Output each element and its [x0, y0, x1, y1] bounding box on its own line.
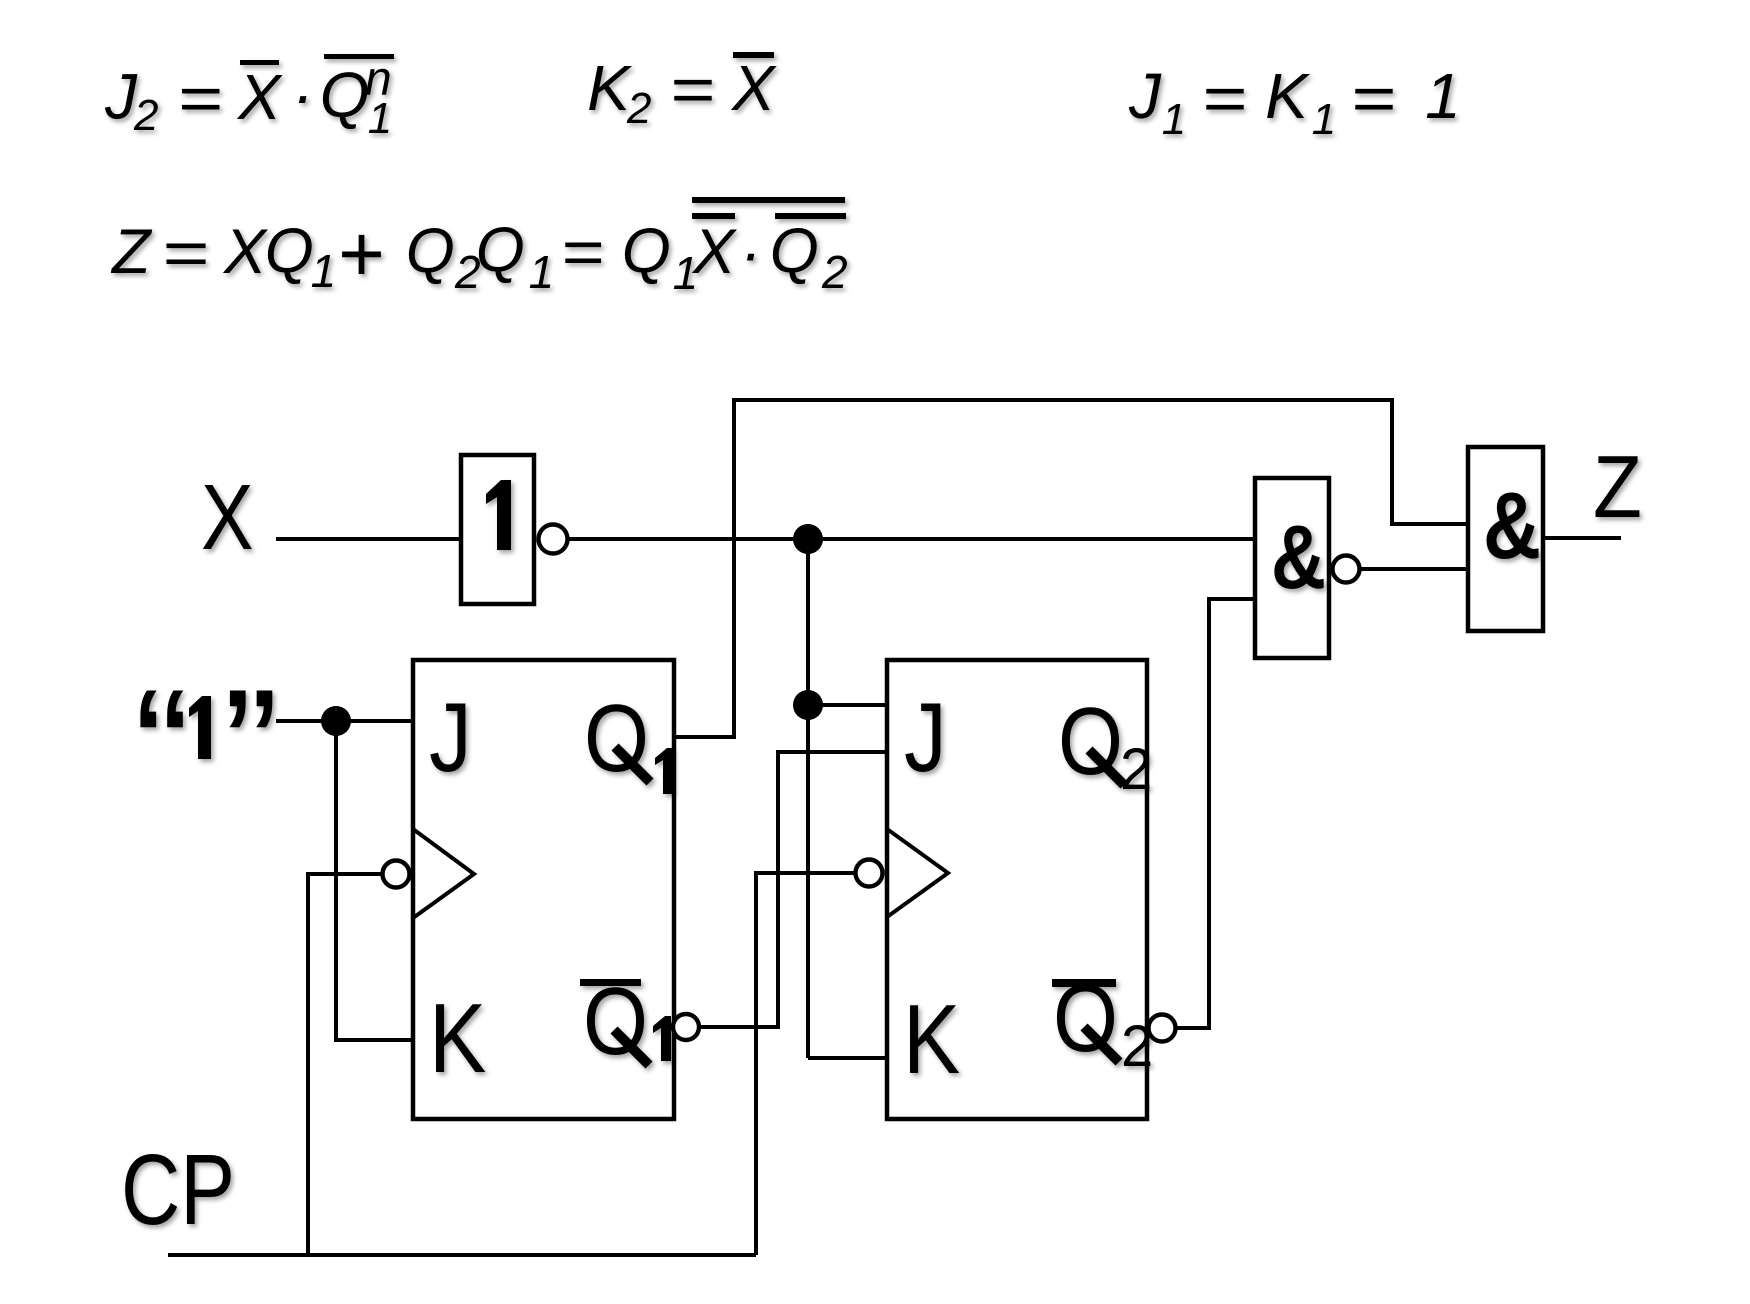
svg-text:=: = [177, 63, 222, 135]
svg-text:·: · [740, 219, 761, 289]
wire "1" to FF1 J [276, 719, 413, 723]
junction dot on "1" line [321, 706, 351, 736]
svg-text:K: K [1265, 60, 1311, 132]
wire Q1 feedback up and across to AND G3 [674, 400, 1468, 737]
FF1 pin Q1 label [584, 685, 673, 794]
junction dot on X-bar line [793, 524, 823, 554]
svg-text:J: J [429, 682, 472, 792]
svg-text:&: & [1271, 508, 1326, 608]
svg-text:Z: Z [1593, 437, 1642, 536]
svg-text:+: + [337, 209, 384, 298]
flip-flop FF2 box [887, 660, 1147, 1119]
svg-text:1: 1 [368, 94, 392, 143]
inverter G1 box [461, 455, 534, 604]
svg-text:Q: Q [265, 216, 314, 286]
flip-flop FF1 box [413, 660, 674, 1119]
svg-text:X: X [222, 217, 268, 287]
svg-text:=: = [669, 54, 714, 126]
svg-text:1: 1 [1425, 60, 1461, 132]
svg-text:K: K [903, 984, 960, 1094]
svg-text:J: J [104, 61, 138, 133]
svg-text:·: · [292, 59, 313, 131]
svg-text:CP: CP [121, 1134, 235, 1246]
svg-text:Q: Q [406, 216, 455, 286]
svg-text:=: = [561, 217, 604, 287]
FF2 clock bubble [856, 860, 883, 887]
NAND G2 output bubble [1333, 556, 1360, 583]
svg-text:2: 2 [626, 84, 651, 133]
inverter G1 output bubble [539, 525, 568, 554]
svg-text:X: X [201, 465, 254, 569]
svg-text:J: J [904, 682, 947, 792]
svg-text:2: 2 [821, 246, 848, 298]
wire to FF2 J [808, 703, 887, 707]
wire branch to FF1 K [336, 721, 413, 1040]
svg-text:“: “ [134, 655, 189, 839]
FF2 Q2-bar output bubble [1149, 1015, 1176, 1042]
node "1" constant label [134, 655, 278, 839]
svg-text:X: X [730, 52, 777, 124]
svg-text:=: = [1201, 63, 1246, 135]
junction dot at FF2 J branch [793, 690, 823, 720]
wire Q2-bar to NAND G2 lower input [1176, 599, 1255, 1028]
FF1 pin Q1-bar label [580, 968, 671, 1075]
svg-text:Q: Q [320, 59, 370, 131]
FF1 clock bubble [383, 861, 410, 888]
svg-text:Z: Z [110, 217, 153, 287]
svg-text:1: 1 [311, 245, 337, 297]
wire Q1-bar to FF2 J second input [699, 752, 887, 1027]
svg-text:X: X [691, 217, 737, 287]
NAND gate G2 box [1255, 478, 1329, 658]
svg-text:Q: Q [476, 215, 525, 285]
equation Z = XQ1 + Q2Q1 = Q1 not(notX . notQ2) [110, 197, 848, 299]
svg-text:J: J [1128, 60, 1162, 132]
svg-text:1: 1 [1312, 95, 1336, 144]
wire X-bar from inverter to NAND G2 [569, 537, 1255, 541]
svg-text:Q: Q [622, 216, 671, 286]
svg-text:&: & [1483, 473, 1541, 579]
svg-text:”: ” [223, 655, 278, 839]
svg-text:=: = [1350, 63, 1395, 135]
wire X-bar branch down [806, 539, 810, 1058]
equation J2 = X*Q1n [104, 53, 394, 144]
FF1 clock edge triangle [413, 829, 474, 918]
wire AND G3 output Z [1545, 536, 1621, 540]
FF2 pin Q2 label [1058, 688, 1152, 802]
FF2 clock edge triangle [887, 829, 948, 917]
svg-text:X: X [236, 61, 283, 133]
wire CP riser to FF1 clock [308, 874, 381, 1255]
svg-text:Q: Q [770, 216, 819, 286]
FF2 pin Q2-bar label [1052, 965, 1153, 1079]
equation J1 = K1 = 1 [1128, 60, 1461, 144]
svg-text:1: 1 [1162, 95, 1186, 144]
wire X input [276, 537, 459, 541]
svg-text:K: K [429, 983, 486, 1093]
inverter G1 label "1" [486, 480, 511, 550]
wire NAND G2 output to AND G3 [1361, 567, 1468, 571]
wire to FF2 K [808, 1056, 887, 1060]
wire CP riser to FF2 clock [756, 873, 854, 1255]
AND gate G3 box [1468, 447, 1543, 631]
wire CP line [168, 1253, 756, 1257]
svg-text:2: 2 [133, 91, 158, 140]
FF1 Q1-bar output bubble [673, 1014, 699, 1040]
svg-text:1: 1 [529, 246, 555, 298]
svg-text:=: = [161, 218, 208, 288]
equation K2 = X [587, 52, 777, 133]
